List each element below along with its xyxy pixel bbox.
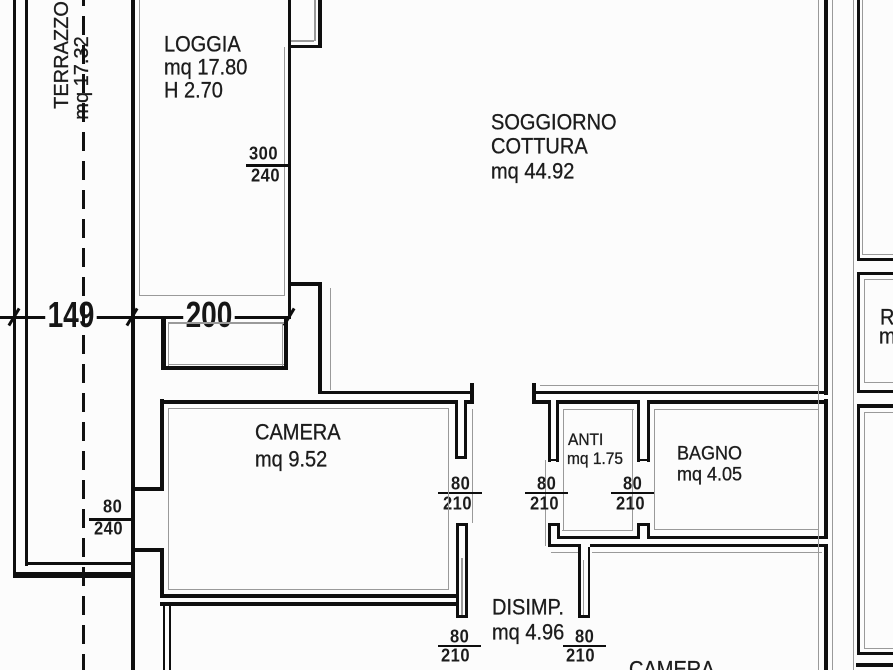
tick at terrazzo wall	[7, 308, 20, 327]
dimension 80/240 terrazzo window	[103, 498, 122, 516]
camera side thin face	[551, 552, 580, 553]
loggia inner face bottom	[139, 295, 286, 297]
right outer thin face line	[853, 0, 854, 670]
terrazzo bottom outer wall	[13, 572, 135, 578]
right box2 walls	[857, 272, 893, 275]
camera left wall lower	[160, 548, 164, 598]
dimension 80/210 lower left door	[450, 628, 469, 646]
camera left wall upper	[160, 399, 164, 488]
anti inner face thin outline	[563, 409, 634, 410]
lower band lower line right piece	[590, 544, 826, 547]
disimp/camera divider wall	[578, 547, 581, 618]
node terrazzo label	[52, 1, 72, 109]
right box1 wall	[857, 0, 861, 261]
dimension 200	[183, 297, 235, 333]
lower band lower line left piece	[548, 544, 581, 547]
soggiorno bottom wall top line right segment	[532, 391, 826, 395]
soggiorno inner face bottom thin	[540, 385, 818, 386]
camera bottom wall upper line	[160, 594, 457, 598]
lower band right jamb	[640, 526, 647, 544]
planter inner thin outline	[168, 322, 284, 324]
wall below camera left	[163, 606, 166, 670]
door hinge thin line	[461, 558, 463, 615]
main right wall thick line lower	[824, 544, 828, 670]
wall end cap with nub at corridor right	[532, 383, 536, 404]
loggia inner face left	[139, 0, 141, 296]
planter right wall	[284, 317, 288, 366]
soggiorno bottom wall top line left segment	[318, 391, 474, 395]
tick at soggiorno wall	[282, 308, 295, 327]
loggia inner face right	[284, 47, 286, 296]
divider inner thin lines	[583, 560, 585, 615]
lower band left jamb	[548, 523, 551, 547]
lower band upper line	[560, 536, 827, 539]
right box3 walls	[857, 404, 893, 408]
dashed boundary line	[82, 0, 86, 670]
camera bottom wall lower line	[160, 602, 457, 606]
window loggia-soggiorno 300x240	[288, 48, 291, 282]
corridor inner face thin	[545, 460, 546, 546]
camera wall jog lower	[133, 548, 164, 552]
node soggiorno cottura label	[491, 112, 617, 134]
terrazzo left outer wall	[13, 0, 17, 578]
planter bottom wall	[161, 366, 288, 371]
door jamb camera right upper	[458, 394, 465, 456]
door jamb anti left upper	[551, 394, 557, 459]
main right wall thin face	[818, 0, 820, 670]
bottom line right segment	[532, 400, 826, 404]
main right wall thick line middle	[824, 399, 828, 539]
main right wall thick line upper	[824, 0, 828, 395]
terrazzo left inner face line	[25, 0, 28, 566]
dimension 80/210 bagno door	[623, 475, 642, 493]
pier top bottom edge	[288, 45, 322, 49]
node camera lower label	[629, 659, 715, 670]
camera top wall bottom line	[161, 400, 474, 404]
dimension 240	[251, 167, 280, 185]
dimension line row	[0, 316, 290, 319]
dimension 149	[45, 297, 97, 333]
anti side thin face	[562, 530, 633, 531]
dimension 300/240 fraction line	[246, 164, 291, 167]
dimension 80/210 anti door	[537, 475, 556, 493]
wall terrazzo/loggia divider	[131, 0, 135, 670]
dimension 80/210 disimp door	[575, 628, 594, 646]
node camera label	[255, 422, 341, 444]
node bagno label	[677, 443, 742, 463]
dimension 80/210 camera door	[451, 475, 470, 493]
dimension 300	[249, 145, 278, 163]
wall soggiorno left lower	[318, 282, 322, 394]
pier bottom left edge	[288, 282, 291, 319]
pier top inner thin horizontal	[291, 40, 314, 42]
camera wall jog upper	[133, 487, 164, 491]
door jamb camera lower	[456, 523, 459, 618]
main right wall east thin face	[832, 0, 833, 670]
pier bottom top edge	[288, 282, 322, 286]
pier top left edge	[288, 0, 291, 48]
pier top right edge	[318, 0, 322, 48]
door jamb anti/bagno divider	[640, 394, 647, 459]
node rip label	[880, 307, 893, 329]
node disimp label	[492, 597, 564, 619]
node terrazzo area label	[72, 36, 92, 119]
node loggia label	[164, 34, 241, 56]
camera inner face thin outline	[168, 408, 449, 409]
terrazzo bottom inner face line	[27, 562, 131, 565]
corridor left inner face thin	[472, 409, 473, 523]
tick at loggia wall	[125, 308, 138, 327]
pier top inner thin vertical	[314, 0, 316, 41]
bagno side thin face	[654, 529, 819, 530]
planter left wall	[161, 317, 166, 370]
soggiorno inner face left thin	[330, 288, 331, 390]
node anti label	[568, 432, 603, 449]
bagno inner face thin outline	[654, 409, 819, 410]
wall end cap with nub at corridor left	[470, 383, 474, 404]
